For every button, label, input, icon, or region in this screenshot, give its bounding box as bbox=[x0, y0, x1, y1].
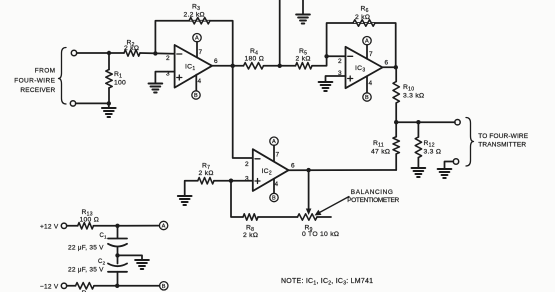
label -12 V bbox=[40, 283, 59, 290]
svg-text:FROM: FROM bbox=[35, 67, 56, 74]
svg-text:2 kΩ: 2 kΩ bbox=[124, 45, 139, 52]
svg-text:4: 4 bbox=[275, 181, 279, 188]
svg-text:C1: C1 bbox=[100, 233, 108, 240]
wire R13 to circle A bbox=[94, 225, 160, 227]
svg-text:A: A bbox=[272, 139, 276, 145]
svg-text:A: A bbox=[195, 36, 199, 42]
wire IC1 pin3 to ground bbox=[155, 72, 174, 84]
power circle B IC1 bbox=[192, 91, 200, 99]
ground IC1 pin3 bbox=[149, 84, 163, 93]
wire R14 to circle B bbox=[94, 285, 160, 287]
resistor R3 bbox=[189, 18, 210, 24]
pin 4 IC2 bbox=[273, 179, 275, 194]
wire IC1 output bbox=[212, 65, 244, 67]
node N10 bbox=[306, 168, 310, 172]
svg-text:7: 7 bbox=[369, 51, 373, 58]
ground under R12 bbox=[412, 168, 426, 177]
svg-text:7: 7 bbox=[199, 49, 203, 56]
wire R2 to IC1 pin2 bbox=[140, 52, 175, 55]
svg-text:POTENTIOMETER: POTENTIOMETER bbox=[347, 197, 399, 204]
node N11 bbox=[229, 179, 233, 183]
svg-text:B: B bbox=[272, 196, 276, 202]
brace from four-wire receiver bbox=[59, 48, 67, 105]
svg-text:100: 100 bbox=[114, 80, 126, 87]
svg-text:2 kΩ: 2 kΩ bbox=[199, 170, 214, 177]
power circle B supply bbox=[160, 282, 168, 290]
resistor R2 bbox=[124, 50, 140, 56]
power circle A supply bbox=[159, 221, 167, 229]
wire -12V to R14 bbox=[67, 285, 76, 287]
pin 7 IC1 bbox=[196, 42, 198, 58]
wire +12V to R13 bbox=[67, 225, 78, 227]
capacitor C1 bbox=[108, 226, 127, 256]
node N6 bbox=[324, 54, 328, 58]
svg-text:6: 6 bbox=[291, 163, 295, 170]
svg-text:TO FOUR-WIRE: TO FOUR-WIRE bbox=[478, 133, 528, 140]
wire R4 to R5 bbox=[264, 65, 296, 67]
resistor R14 bbox=[76, 283, 94, 289]
op-amp IC1 bbox=[166, 45, 218, 88]
svg-text:A: A bbox=[365, 39, 369, 45]
svg-text:4: 4 bbox=[369, 80, 373, 87]
wire input top bbox=[77, 52, 124, 54]
wire IC2 output bbox=[289, 169, 397, 171]
wire from top edge to N5 bbox=[279, 0, 281, 66]
wire R3 feedback loop bbox=[155, 21, 232, 66]
wire N13 to ground bbox=[118, 255, 143, 260]
svg-text:7: 7 bbox=[276, 152, 280, 159]
svg-text:0 TO 10 kΩ: 0 TO 10 kΩ bbox=[302, 231, 339, 238]
power circle B IC2 bbox=[270, 193, 278, 201]
svg-text:RECEIVER: RECEIVER bbox=[20, 87, 55, 94]
terminal output top bbox=[455, 120, 460, 125]
wire R9 wiper bbox=[308, 170, 310, 209]
arrowhead R9 wiper bbox=[306, 209, 312, 216]
ground IC3 pin3 bbox=[319, 82, 333, 91]
wire IC3 pin3 to ground bbox=[326, 76, 346, 82]
terminal -12V bbox=[61, 283, 66, 288]
capacitor C2 bbox=[108, 255, 127, 285]
label BALANCING POTENTIOMETER bbox=[347, 189, 399, 204]
resistor R5 bbox=[296, 63, 313, 69]
node N12 bbox=[115, 224, 119, 228]
svg-text:2.2 kΩ: 2.2 kΩ bbox=[184, 12, 205, 19]
pin 4 IC3 bbox=[366, 76, 368, 93]
node N4 bbox=[231, 64, 235, 68]
svg-text:180 Ω: 180 Ω bbox=[245, 56, 265, 63]
wire IC3 output bbox=[383, 66, 397, 68]
wire R7 to IC2 pin3 bbox=[214, 180, 253, 182]
label FROM FOUR-WIRE RECEIVER bbox=[14, 67, 55, 94]
node N8 bbox=[394, 120, 398, 124]
wire bottom terminal to ground bbox=[445, 162, 454, 170]
svg-text:3.3 Ω: 3.3 Ω bbox=[424, 149, 442, 156]
ground R7 bbox=[178, 196, 192, 205]
resistor R4 bbox=[244, 63, 264, 69]
pin 7 IC2 bbox=[273, 145, 275, 161]
svg-text:BALANCING: BALANCING bbox=[351, 189, 393, 196]
svg-text:6: 6 bbox=[385, 60, 389, 67]
node N2 bbox=[107, 101, 111, 105]
svg-text:B: B bbox=[194, 93, 198, 99]
svg-text:3.3 kΩ: 3.3 kΩ bbox=[403, 93, 424, 100]
svg-text:A: A bbox=[162, 224, 166, 230]
arrow balancing potentiometer callout bbox=[315, 197, 350, 216]
wire R7 left to ground bbox=[185, 181, 198, 196]
power circle A IC3 bbox=[363, 37, 371, 45]
resistor R7 bbox=[198, 178, 214, 184]
svg-text:+12 V: +12 V bbox=[40, 223, 59, 230]
node N9 bbox=[416, 120, 420, 124]
wire N8 to output terminal bbox=[396, 121, 455, 123]
svg-text:2: 2 bbox=[166, 55, 170, 62]
wire R6 feedback loop bbox=[327, 23, 396, 67]
resistor R6 bbox=[353, 20, 375, 26]
wire R8 loop bbox=[231, 181, 243, 217]
svg-text:2: 2 bbox=[338, 58, 342, 65]
wire input bottom bbox=[76, 102, 109, 104]
svg-text:100 Ω: 100 Ω bbox=[80, 217, 100, 224]
power circle A IC1 bbox=[193, 34, 201, 42]
op-amp IC3 bbox=[338, 47, 389, 88]
svg-text:B: B bbox=[365, 95, 369, 101]
resistor R8 bbox=[243, 214, 258, 220]
svg-text:4: 4 bbox=[198, 78, 202, 85]
power circle A IC2 bbox=[270, 137, 278, 145]
node N14 bbox=[115, 284, 119, 288]
pin 7 IC3 bbox=[366, 45, 368, 59]
ground under N2 bbox=[108, 103, 110, 108]
note IC1 IC2 IC3 LM741 bbox=[281, 278, 373, 287]
svg-text:22 μF, 35 V: 22 μF, 35 V bbox=[68, 267, 104, 274]
terminal +12V bbox=[61, 223, 66, 228]
svg-text:B: B bbox=[162, 284, 166, 290]
svg-text:22 μF, 35 V: 22 μF, 35 V bbox=[68, 245, 104, 252]
svg-text:6: 6 bbox=[214, 58, 218, 65]
terminal output bottom bbox=[453, 159, 458, 164]
terminal input bottom bbox=[70, 101, 75, 106]
resistor R13 bbox=[78, 223, 94, 229]
wire IC1 output down to IC2 pin2 bbox=[233, 66, 253, 158]
svg-text:2 kΩ: 2 kΩ bbox=[296, 56, 311, 63]
svg-text:C2: C2 bbox=[98, 259, 106, 266]
potentiometer R9 bbox=[298, 214, 317, 220]
node N5 bbox=[278, 64, 282, 68]
wire top ground stub bbox=[302, 0, 304, 15]
node N1 bbox=[107, 51, 111, 55]
svg-text:−12 V: −12 V bbox=[40, 283, 59, 290]
svg-text:47 kΩ: 47 kΩ bbox=[371, 149, 390, 156]
ground bottom terminal bbox=[438, 169, 452, 178]
resistor R11 bbox=[395, 122, 397, 137]
svg-text:2 kΩ: 2 kΩ bbox=[355, 14, 370, 21]
ground top bbox=[296, 15, 310, 24]
label TO FOUR-WIRE TRANSMITTER bbox=[478, 133, 528, 149]
svg-text:TRANSMITTER: TRANSMITTER bbox=[478, 142, 526, 149]
terminal input top bbox=[71, 50, 76, 55]
resistor R10 bbox=[395, 67, 397, 81]
ground supply mid bbox=[135, 260, 149, 269]
label +12 V bbox=[40, 223, 59, 230]
power circle B IC3 bbox=[363, 93, 371, 101]
op-amp IC2 bbox=[245, 149, 295, 191]
wire R5 to IC3 pin2 bbox=[312, 56, 346, 66]
resistor R1 bbox=[108, 53, 110, 70]
svg-text:2 kΩ: 2 kΩ bbox=[243, 232, 258, 239]
wire R9 right stub bbox=[317, 216, 331, 218]
node N3 pin2 junction bbox=[153, 51, 157, 55]
pin 4 IC1 bbox=[195, 75, 197, 91]
svg-text:2: 2 bbox=[245, 161, 249, 168]
brace to four-wire transmitter bbox=[466, 118, 474, 167]
node N13 bbox=[115, 253, 119, 257]
svg-text:FOUR-WIRE: FOUR-WIRE bbox=[14, 78, 55, 85]
resistor R12 bbox=[417, 122, 419, 137]
wire R8 to R9 bbox=[258, 216, 298, 218]
node N7 bbox=[394, 65, 398, 69]
